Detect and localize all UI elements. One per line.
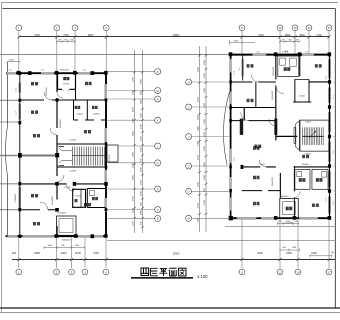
room label living R	[254, 145, 261, 148]
svg-text:1400: 1400	[9, 59, 15, 61]
svg-text:N: N	[188, 80, 190, 84]
svg-text:C-9042: C-9042	[69, 140, 77, 142]
svg-text:15000: 15000	[173, 252, 180, 255]
side axis circle C	[155, 207, 161, 213]
svg-text:900x2000: 900x2000	[46, 86, 48, 96]
lower site lines	[107, 227, 335, 241]
svg-text:1:2放坡: 1:2放坡	[282, 49, 289, 53]
svg-text:240: 240	[294, 221, 297, 223]
svg-text:2350: 2350	[286, 251, 292, 255]
svg-text:900x2000: 900x2000	[60, 118, 62, 128]
svg-text:5100: 5100	[257, 251, 263, 255]
interior wall vertical x295	[293, 166, 295, 219]
svg-text:1000: 1000	[61, 251, 67, 255]
svg-text:1740: 1740	[198, 202, 200, 208]
svg-text:G: G	[188, 164, 190, 168]
top-middle bathroom	[58, 75, 76, 92]
side axis circle B2	[186, 215, 192, 221]
bottom axis circle 12	[277, 269, 283, 275]
side axis circle N2	[186, 79, 192, 85]
top mini dimension 1623	[230, 40, 256, 45]
top secondary dimension row right	[279, 40, 301, 43]
top axis circle 1	[16, 25, 22, 31]
svg-text:1623: 1623	[234, 41, 240, 43]
interior wall vertical x57	[56, 72, 58, 236]
svg-text:17: 17	[328, 26, 331, 30]
side axis circle L2	[186, 104, 192, 110]
svg-text:1000: 1000	[141, 166, 143, 172]
bottom main dimension line	[12, 251, 335, 261]
svg-text:900x2000: 900x2000	[272, 90, 274, 100]
svg-text:1000: 1000	[204, 174, 206, 180]
top axis circle 17	[326, 25, 332, 31]
bottom secondary dimension row right	[280, 247, 332, 257]
svg-text:1740: 1740	[204, 199, 206, 205]
svg-text:900x2000: 900x2000	[272, 176, 274, 186]
svg-text:1500: 1500	[141, 179, 143, 185]
svg-text:1200: 1200	[204, 72, 206, 78]
top axis circle 14	[306, 25, 312, 31]
svg-text:3000: 3000	[133, 151, 135, 157]
room label bedroom RW3	[253, 146, 259, 149]
room label bedroom RS2	[312, 204, 319, 207]
svg-text:1200: 1200	[141, 123, 143, 129]
interior wall horizontal y183	[20, 182, 108, 186]
title glyph 四	[141, 268, 149, 276]
svg-text:C-2: C-2	[256, 51, 259, 53]
top axis circle 13	[292, 25, 298, 31]
bottom axis circle 1	[16, 269, 22, 275]
room label bedroom NW	[31, 82, 38, 85]
title glyph 面	[169, 268, 176, 276]
svg-text:2700: 2700	[133, 220, 135, 226]
svg-text:P: P	[157, 70, 159, 74]
left building right wall	[105, 72, 107, 236]
bottom axis lines	[19, 219, 329, 268]
svg-text:1300: 1300	[204, 118, 206, 124]
bottom-centre box right building	[280, 198, 299, 224]
title glyph 平	[159, 269, 167, 277]
left building left wall	[16, 72, 22, 238]
svg-text:C-9042: C-9042	[64, 187, 71, 189]
svg-text:1160: 1160	[292, 247, 297, 249]
svg-text:180: 180	[282, 247, 286, 249]
svg-text:520: 520	[12, 251, 17, 255]
svg-text:900: 900	[61, 245, 65, 247]
svg-text:1200: 1200	[141, 135, 143, 141]
left building side axis leader lines	[108, 72, 155, 219]
room label dining R	[302, 155, 309, 158]
svg-text:3023/3021: 3023/3021	[60, 70, 69, 72]
svg-text:1300: 1300	[204, 87, 206, 93]
right building entry swing arc	[223, 92, 229, 165]
room label S hall	[84, 203, 91, 206]
svg-text:1200: 1200	[141, 112, 143, 118]
right wall junction columns	[105, 98, 108, 211]
room label study RNE	[315, 64, 322, 67]
right building bottom wall	[229, 216, 331, 220]
interior wall horizontal y166	[241, 165, 331, 169]
stair top wall y144	[57, 143, 107, 145]
svg-text:C9042: C9042	[305, 122, 311, 124]
svg-text:1000: 1000	[75, 245, 80, 247]
bottom axis circle 6	[103, 269, 109, 275]
side axis circle K	[155, 117, 161, 123]
interior wall horizontal y100	[20, 98, 107, 101]
svg-text:2700: 2700	[316, 34, 322, 37]
interior wall vertical x300.5	[299, 54, 301, 150]
title glyph 层	[150, 268, 157, 276]
svg-text:C-3: C-3	[16, 111, 18, 115]
interior small dims left building	[9, 70, 86, 215]
svg-text:1300: 1300	[204, 145, 206, 151]
svg-text:900x2000: 900x2000	[52, 195, 54, 205]
room label bedroom W2	[31, 111, 38, 114]
svg-text:900x2000: 900x2000	[273, 66, 275, 76]
svg-text:C9042: C9042	[75, 196, 82, 198]
top axis circle 6	[103, 25, 109, 31]
kitchen box right building	[295, 169, 310, 189]
bottom-middle box	[57, 216, 77, 242]
left building right-side dim lines	[133, 50, 144, 233]
left building bottom-left balcony	[15, 193, 17, 203]
left building bottom wall	[6, 234, 108, 238]
svg-text:12: 12	[279, 26, 282, 30]
svg-text:1140: 1140	[286, 221, 290, 223]
top secondary dimension row left	[56, 40, 76, 43]
side axis circle D2	[186, 188, 192, 194]
left building outer balcony line	[0, 62, 20, 237]
interior wall vertical x255.5	[231, 82, 276, 121]
svg-text:7500: 7500	[34, 34, 40, 37]
svg-text:C-1: C-1	[305, 51, 308, 53]
svg-text:2700: 2700	[133, 195, 135, 201]
svg-text:2700: 2700	[198, 96, 200, 102]
bath box right building	[312, 169, 328, 189]
svg-text:2000: 2000	[75, 251, 81, 255]
top bathroom right building	[278, 56, 299, 76]
svg-text:2700: 2700	[133, 76, 135, 82]
svg-text:5480: 5480	[34, 251, 40, 255]
top axis circle 2	[54, 25, 60, 31]
room label bedroom SW	[31, 194, 38, 197]
svg-text:TC0918: TC0918	[109, 154, 111, 162]
lower bathroom box	[72, 189, 86, 209]
svg-text:C-2: C-2	[239, 68, 241, 71]
svg-text:C-9042: C-9042	[298, 96, 304, 98]
right stairs	[294, 120, 329, 155]
top axis lines	[19, 31, 329, 72]
interior wall vertical x74.5	[74, 72, 76, 120]
side axis circle N	[155, 96, 161, 102]
interior wall vertical x276	[276, 54, 280, 197]
svg-text:2430: 2430	[198, 66, 200, 72]
interior small dims right building	[233, 71, 327, 201]
interior wall horizontal y189.3	[242, 190, 281, 192]
interior wall horizontal y136	[276, 135, 297, 137]
middle thick wall y155.5	[18, 153, 59, 158]
interior wall horizontal y210	[20, 208, 59, 212]
svg-text:C-1: C-1	[326, 198, 328, 201]
stairs left building	[59, 140, 106, 173]
room label hall	[84, 130, 91, 133]
svg-text:1500: 1500	[204, 59, 206, 65]
svg-text:1000: 1000	[204, 131, 206, 137]
svg-text:1500: 1500	[133, 89, 135, 95]
right building right wall	[328, 53, 331, 220]
svg-text:2040x2: 2040x2	[93, 114, 100, 116]
svg-text:2100x600: 2100x600	[15, 193, 17, 203]
svg-text:700x600: 700x600	[301, 164, 309, 166]
left building top wall	[6, 71, 108, 75]
room label bedroom RS1	[253, 176, 259, 206]
door arcs right building	[241, 75, 300, 198]
svg-text:13: 13	[294, 26, 297, 30]
svg-text:1800: 1800	[299, 34, 305, 37]
bottom axis circle 3	[69, 269, 75, 275]
room label living S	[33, 222, 40, 225]
bottom axis circle 8	[239, 269, 245, 275]
svg-text:4800: 4800	[88, 34, 94, 37]
door arcs left building	[40, 92, 74, 210]
svg-text:17: 17	[328, 270, 331, 274]
side axis circle G2	[186, 163, 192, 169]
title glyph 图	[179, 268, 186, 276]
svg-text:C: C	[157, 208, 159, 212]
right building left wall	[230, 53, 232, 218]
svg-text:C-2: C-2	[41, 70, 44, 72]
svg-text:C-1: C-1	[326, 76, 328, 79]
room label bedroom RW2	[247, 99, 254, 102]
upper bath and kitchen rooms	[74, 101, 107, 121]
interior wall horizontal y120.5	[231, 119, 278, 135]
bottom axis circle 2	[54, 269, 60, 275]
bottom axis circle 17	[326, 269, 332, 275]
svg-text:2580: 2580	[285, 34, 291, 37]
svg-text:1500: 1500	[141, 78, 143, 84]
side axis circle M	[155, 88, 161, 94]
side axis circle J	[155, 143, 161, 149]
right building side axis leader lines	[191, 82, 230, 218]
slope annotation	[256, 49, 308, 53]
left wall junction columns	[229, 80, 232, 192]
top-left dimension 1400	[7, 59, 21, 62]
stair bottom wall y167	[57, 166, 107, 168]
svg-text:M: M	[157, 89, 159, 93]
room label bedroom RN1	[247, 64, 254, 67]
room label bedroom NE	[85, 82, 92, 85]
under-wall mini dims right building	[278, 221, 299, 225]
svg-text:240: 240	[331, 252, 335, 254]
svg-text:2700: 2700	[198, 154, 200, 160]
top axis circle 12	[277, 25, 283, 31]
long site line	[0, 54, 230, 56]
svg-text:1500x600: 1500x600	[62, 240, 72, 242]
svg-text:1:100: 1:100	[197, 274, 208, 279]
entry partition with window C-2	[239, 54, 275, 80]
svg-text:2750: 2750	[93, 251, 99, 255]
svg-text:B: B	[188, 217, 190, 221]
svg-text:C-9042: C-9042	[69, 171, 77, 173]
svg-text:14: 14	[297, 270, 300, 274]
side axis circle E	[155, 186, 161, 192]
side axis circle B	[155, 215, 161, 221]
svg-text:2400: 2400	[311, 251, 317, 255]
title scale 1:100	[197, 274, 208, 279]
room label living room	[33, 134, 40, 137]
top main dimension line	[17, 34, 330, 39]
svg-text:3600: 3600	[133, 130, 135, 136]
svg-text:C9042: C9042	[63, 84, 70, 86]
title underline	[131, 277, 193, 279]
svg-text:D: D	[188, 190, 190, 194]
interior wall horizontal y82.5	[231, 81, 331, 83]
side axis circle G	[155, 160, 161, 166]
svg-text:C-2: C-2	[233, 158, 235, 161]
top axis circle 8	[239, 25, 245, 31]
svg-text:1500: 1500	[133, 207, 135, 213]
top axis circle 4	[72, 25, 78, 31]
svg-text:K: K	[157, 119, 159, 123]
bottom axis circle 14	[295, 269, 301, 275]
svg-text:1500: 1500	[198, 114, 200, 120]
svg-text:1500: 1500	[133, 162, 135, 168]
svg-text:C-9042: C-9042	[258, 164, 264, 166]
svg-text:12: 12	[279, 270, 282, 274]
svg-text:1000: 1000	[141, 146, 143, 152]
right building top wall	[229, 52, 331, 56]
svg-text:G: G	[157, 161, 159, 165]
svg-text:C-3: C-3	[16, 88, 18, 92]
svg-text:2400: 2400	[198, 125, 200, 131]
svg-text:1300: 1300	[198, 140, 200, 146]
svg-text:B: B	[157, 217, 159, 221]
svg-text:C-1: C-1	[83, 70, 86, 72]
svg-text:3600: 3600	[133, 174, 135, 180]
svg-text:14: 14	[308, 26, 311, 30]
left building stair landing bay	[107, 145, 118, 162]
side axis circle J2	[186, 134, 192, 140]
svg-text:1500x600: 1500x600	[57, 213, 67, 215]
svg-text:1000x600: 1000x600	[280, 196, 289, 198]
side axis circle P	[155, 69, 161, 75]
small corridor room x295-310	[293, 79, 311, 102]
svg-text:1800: 1800	[141, 209, 143, 215]
svg-text:1000: 1000	[141, 190, 143, 196]
left building curved balcony arc	[6, 125, 8, 177]
svg-text:5100: 5100	[258, 34, 264, 37]
right wall leader stubs	[333, 82, 336, 205]
svg-text:2040: 2040	[198, 181, 200, 187]
svg-text:2000: 2000	[48, 245, 53, 247]
svg-text:2040x2: 2040x2	[77, 114, 84, 116]
bottom secondary dimension row left	[44, 245, 85, 249]
svg-text:C-2: C-2	[233, 71, 235, 74]
svg-text:2700: 2700	[63, 34, 69, 37]
svg-text:15000: 15000	[173, 34, 180, 37]
svg-text:E: E	[157, 187, 159, 191]
bottom axis circle 5	[82, 269, 88, 275]
svg-text:N: N	[157, 97, 159, 101]
right building left-side dim lines	[198, 46, 208, 232]
svg-text:4200: 4200	[133, 106, 135, 112]
lower kitchen box	[87, 189, 105, 208]
svg-text:C-1: C-1	[9, 70, 12, 72]
